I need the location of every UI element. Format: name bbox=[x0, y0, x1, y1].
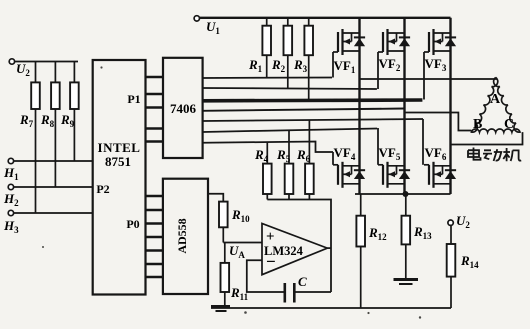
svg-text:A: A bbox=[490, 92, 501, 107]
svg-text:P0: P0 bbox=[126, 217, 139, 231]
resistor R11 bbox=[221, 243, 249, 308]
wire P0 bus rung 3 bbox=[146, 222, 163, 224]
wire gate line VF3 (L3) bbox=[203, 98, 423, 102]
wire phase C line bbox=[451, 132, 523, 144]
svg-text:INTEL: INTEL bbox=[98, 140, 141, 155]
wire phase A line bbox=[360, 77, 496, 79]
svg-text:C: C bbox=[504, 117, 514, 132]
wire line to phase B bbox=[203, 109, 405, 111]
wire R4-R6 common bus to op-amp output bbox=[267, 200, 331, 293]
resistor R7 bbox=[19, 62, 40, 214]
terminal U2-right bbox=[448, 213, 470, 230]
resistor R2 bbox=[271, 18, 292, 89]
wire op-amp output stub bbox=[327, 247, 331, 249]
terminal H3 bbox=[3, 210, 19, 235]
transistor VF2 (MOSFET) bbox=[378, 29, 410, 73]
resistor R14 bbox=[447, 225, 479, 308]
transistor VF1 (MOSFET) bbox=[333, 29, 365, 75]
wire VF3 gate drop bbox=[423, 52, 425, 100]
wire gate line VF4 (L6) bbox=[203, 142, 333, 153]
wire VF1 gate drop bbox=[332, 52, 334, 78]
wire P1 bus rung 2 bbox=[146, 93, 164, 95]
resistor R10 bbox=[219, 202, 250, 243]
transistor VF5 (MOSFET) bbox=[378, 145, 410, 188]
wire U2 supply rail bbox=[15, 61, 78, 63]
resistor R3 bbox=[293, 18, 313, 100]
terminal U2-left bbox=[9, 59, 30, 78]
resistor R5 bbox=[276, 131, 293, 200]
resistor R12 bbox=[356, 194, 387, 308]
wire VF5 gate drop bbox=[377, 128, 379, 165]
terminal H2 bbox=[3, 184, 19, 208]
resistor R1 bbox=[248, 18, 271, 78]
svg-text:+: + bbox=[266, 229, 275, 245]
wire gate line VF5 (L5) bbox=[203, 129, 378, 133]
wire VF4 gate drop bbox=[332, 152, 334, 165]
wire H1 to P2 bbox=[14, 160, 93, 162]
transistor VF3 (MOSFET) bbox=[424, 29, 456, 73]
op-amp U4 LM324 bbox=[262, 224, 327, 275]
wire P0 bus rung 4 bbox=[146, 236, 163, 238]
svg-text:B: B bbox=[473, 117, 482, 132]
resistor R9 bbox=[60, 62, 79, 162]
wire P0 bus rung 1 bbox=[146, 195, 163, 197]
wire P1 bus rung 3 bbox=[146, 106, 164, 108]
svg-text:LM324: LM324 bbox=[264, 244, 304, 258]
wire AD558 output to R10 bbox=[208, 194, 223, 202]
label 电动机 (motor) hand-drawn glyphs bbox=[468, 148, 481, 160]
wire gate line VF2 (L2) bbox=[203, 88, 377, 89]
motor delta winding (scalloped triangle) bbox=[471, 77, 520, 132]
wire H3 to P2 bbox=[14, 212, 93, 214]
wire bottom common rail bbox=[211, 307, 451, 309]
wire phase B column (VF2/VF5) bbox=[403, 18, 405, 194]
wire VF6 gate drop bbox=[422, 119, 424, 165]
wire phase C column (VF3/VF6) bbox=[449, 18, 451, 194]
resistor R6 bbox=[296, 120, 314, 199]
resistor R13 bbox=[402, 194, 433, 278]
capacitor C bbox=[285, 274, 307, 303]
junction source bus / VF5 bbox=[403, 191, 409, 197]
resistor R4 bbox=[254, 142, 272, 200]
svg-text:AD558: AD558 bbox=[175, 218, 189, 253]
wire +U1 rail bbox=[200, 17, 451, 19]
IC U3 AD558 DAC bbox=[163, 179, 208, 294]
ground under R13 bbox=[394, 280, 419, 285]
wire P1 bus rung 5 bbox=[146, 140, 164, 142]
wire P0 bus rung 2 bbox=[146, 209, 163, 211]
wire source bus bbox=[355, 193, 451, 195]
wire P0 bus rung 6 bbox=[146, 263, 163, 265]
IC U1 INTEL 8751 microcontroller bbox=[93, 60, 146, 295]
wire P1 bus rung 1 bbox=[146, 76, 164, 78]
terminal H1 bbox=[3, 158, 19, 182]
svg-text:P2: P2 bbox=[96, 182, 109, 196]
wire UA node to op-amp + input bbox=[223, 242, 262, 244]
transistor VF4 (MOSFET) bbox=[333, 145, 365, 188]
wire P0 bus rung 5 bbox=[146, 249, 163, 251]
wire H2 to P2 bbox=[14, 186, 93, 188]
ground under R11 bbox=[211, 307, 230, 312]
svg-text:C: C bbox=[298, 274, 307, 289]
scan speck marks (noise) bbox=[42, 66, 421, 318]
svg-text:7406: 7406 bbox=[170, 101, 197, 116]
wire phase A column (VF1/VF4) bbox=[358, 18, 360, 194]
wire VF2 gate drop bbox=[377, 52, 379, 89]
svg-text:P1: P1 bbox=[127, 92, 140, 106]
transistor VF6 (MOSFET) bbox=[424, 145, 456, 188]
wire gate line VF6 (L4) bbox=[203, 119, 423, 121]
IC U2 7406 hex inverter/driver bbox=[163, 58, 203, 158]
resistor R8 bbox=[40, 62, 60, 188]
terminal U1 bbox=[194, 16, 220, 36]
wire P1 bus rung 4 bbox=[146, 127, 164, 129]
wire capacitor to op-amp output bbox=[294, 291, 331, 293]
wire gate line VF1 (L1) bbox=[203, 77, 332, 80]
wire P0 bus rung 7 bbox=[146, 276, 163, 278]
wire op-amp - input / feedback bbox=[247, 260, 285, 292]
wire phase B line bbox=[405, 113, 472, 131]
svg-text:8751: 8751 bbox=[105, 154, 131, 169]
